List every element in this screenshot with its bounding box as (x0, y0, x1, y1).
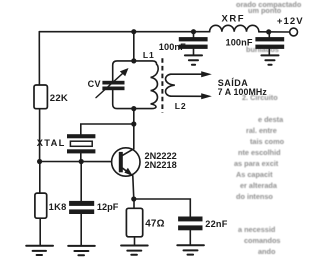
capacitor 100nF left (193, 32, 195, 55)
svg-text:1K8: 1K8 (49, 202, 67, 212)
svg-text:2. Circuito: 2. Circuito (242, 93, 278, 102)
svg-text:CV: CV (88, 79, 101, 89)
svg-text:+12V: +12V (277, 16, 304, 27)
svg-text:tais como: tais como (250, 137, 285, 146)
svg-text:ando: ando (258, 247, 276, 256)
wire output top with arrow (171, 73, 203, 75)
wire 1K8 branch (39, 162, 41, 246)
svg-text:comandos: comandos (244, 236, 281, 245)
svg-text:100nF: 100nF (159, 42, 186, 52)
svg-text:2N2218: 2N2218 (145, 160, 177, 170)
svg-text:burilados: burilados (246, 45, 279, 54)
svg-text:As capacit: As capacit (236, 170, 273, 179)
arrow of variable capacitor CV (96, 73, 123, 98)
node dot top rail / tank (131, 29, 136, 34)
node dot top rail / 100nF left (191, 29, 196, 34)
svg-text:a necessid: a necessid (238, 225, 275, 234)
resistor 47R (126, 208, 142, 237)
svg-text:L1: L1 (143, 50, 155, 60)
svg-text:XRF: XRF (222, 13, 246, 24)
wire emitter node to 47R and 22nF (134, 199, 191, 217)
svg-text:47Ω: 47Ω (145, 219, 165, 230)
svg-text:um ponto: um ponto (248, 6, 282, 15)
svg-text:22nF: 22nF (205, 219, 227, 229)
wire tank feed from rail (133, 32, 135, 61)
svg-text:L2: L2 (175, 101, 187, 111)
node dot tank top (131, 58, 136, 63)
node dot emitter (131, 196, 136, 201)
wire tank loop left with CV gap (113, 61, 134, 109)
node dot top rail / 100nF right (266, 29, 271, 34)
svg-text:e desta: e desta (258, 115, 284, 124)
capacitor CV plates (102, 81, 124, 90)
ground below 22nF (177, 245, 204, 254)
transformer core (dashed line) (161, 58, 163, 112)
resistor 1K8 (35, 193, 47, 218)
svg-text:as para excit: as para excit (234, 159, 279, 168)
svg-text:12pF: 12pF (97, 202, 119, 212)
inductor L2 (secondary) (166, 74, 175, 96)
wire top supply rail (39, 31, 289, 33)
ground below 47R (121, 246, 148, 255)
wire base rail (40, 161, 112, 163)
wire collector branch (122, 109, 133, 156)
svg-text:er alterada: er alterada (240, 181, 278, 190)
capacitor 22nF (178, 217, 202, 231)
svg-text:22K: 22K (50, 93, 68, 104)
wire XTAL top link (81, 124, 134, 134)
svg-text:do intenso: do intenso (236, 192, 273, 201)
wire output bottom with arrow (171, 95, 203, 97)
ground below 100nF right (261, 55, 278, 64)
svg-text:XTAL: XTAL (37, 138, 66, 148)
terminal +12V (290, 28, 298, 36)
svg-text:nte escolhid: nte escolhid (238, 148, 281, 157)
ground below 1K8 (26, 246, 53, 255)
svg-text:ral. entre: ral. entre (246, 126, 277, 135)
crystal XTAL (67, 134, 95, 153)
ground below 12pF (68, 246, 95, 255)
inductor L1 (tank coil) (134, 61, 158, 109)
capacitor 12pF (80, 162, 82, 246)
inductor XRF (RF choke) (210, 25, 259, 32)
resistor 22K (34, 85, 47, 109)
capacitor 100nF right (268, 32, 270, 55)
node dot base rail left (37, 159, 42, 164)
wire left vertical branch (38, 32, 40, 162)
node dot collector / XTAL (131, 121, 136, 126)
ground below 100nF left (185, 55, 202, 64)
transistor Q1 2N2222 (112, 148, 140, 176)
node dot tank bottom (131, 106, 136, 111)
node dot base / XTAL / 12pF (79, 159, 84, 164)
